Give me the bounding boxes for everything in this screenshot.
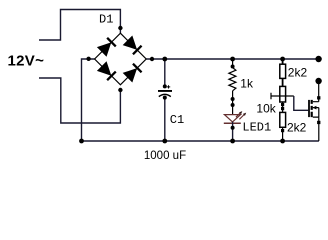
capacitor C1 electrolytic [158,84,172,99]
diode bottom-left of bridge (anode left vertex, cathode bottom) [98,62,116,80]
svg-text:1k: 1k [240,77,254,91]
wire DC minus from bridge left vertex down to bottom rail [82,59,95,141]
bridge pin dot bottom [118,88,122,92]
svg-text:2k2: 2k2 [287,121,307,135]
junction dot bottom rail at C1 [162,139,167,144]
LED1 symbol [224,111,246,123]
svg-text:D1: D1 [99,13,113,27]
junction dot bottom rail left end [79,139,84,144]
diode bottom-right of bridge (anode bottom, cathode right vertex) [124,64,142,82]
wire top positive rail [146,58,318,60]
node AC1 wire from 12V upper terminal to bridge top [39,10,120,41]
svg-text:12V~: 12V~ [8,52,45,69]
diode bridge D1 frame [95,33,147,85]
wire bottom ground rail [82,140,319,142]
transistor Q1 MOSFET [309,84,319,141]
svg-text:C1: C1 [170,113,184,127]
pin dot (square) lower 2k2 top [281,107,284,110]
node AC2 wire from 12V lower terminal to bridge bottom [39,78,120,123]
junction dot bottom rail at LED1 [230,139,235,144]
resistor 2k2 lower (box) with leads [280,112,286,141]
resistor 1k (zigzag) with leads [229,59,236,115]
pin dot (square) 10k bottom [281,103,284,106]
svg-text:10k: 10k [256,102,276,116]
wire C1 branch [164,59,166,141]
bridge pin dot left [86,57,90,61]
junction dot top rail at 1k [230,57,235,62]
diode top-right of bridge (anode top, cathode right vertex) [124,36,142,54]
junction dot top rail at 2k2 [280,57,285,62]
svg-text:LED1: LED1 [242,121,271,135]
pin dot 1k bottom [231,97,235,101]
pin dot 1k top [231,65,235,69]
pin dot LED1 cathode [231,126,235,130]
pin dot (square) MOSFET drain [317,96,320,99]
pin dot LED1 anode [231,103,235,107]
bridge pin dot right [150,57,154,61]
wire trimmer wiper to MOSFET gate [294,96,308,110]
svg-text:2k2: 2k2 [288,66,308,80]
terminal dot output positive [315,56,321,62]
bridge pin dot top [118,26,122,30]
pin dot (square) lower 2k2 bottom [281,129,284,132]
junction dot bottom rail at 2k2 [280,139,285,144]
terminal dot output drain [315,78,321,84]
pin dot (square) MOSFET source [317,121,320,124]
svg-text:1000 uF: 1000 uF [144,150,186,162]
trimmer 10k (box with wiper) [271,86,294,112]
diode top-left of bridge (anode left vertex, cathode top) [98,38,116,56]
resistor 2k2 upper (box) with leads [280,59,286,86]
wire LED1 cathode to rail [232,122,234,141]
junction dot top rail at C1 [162,57,167,62]
